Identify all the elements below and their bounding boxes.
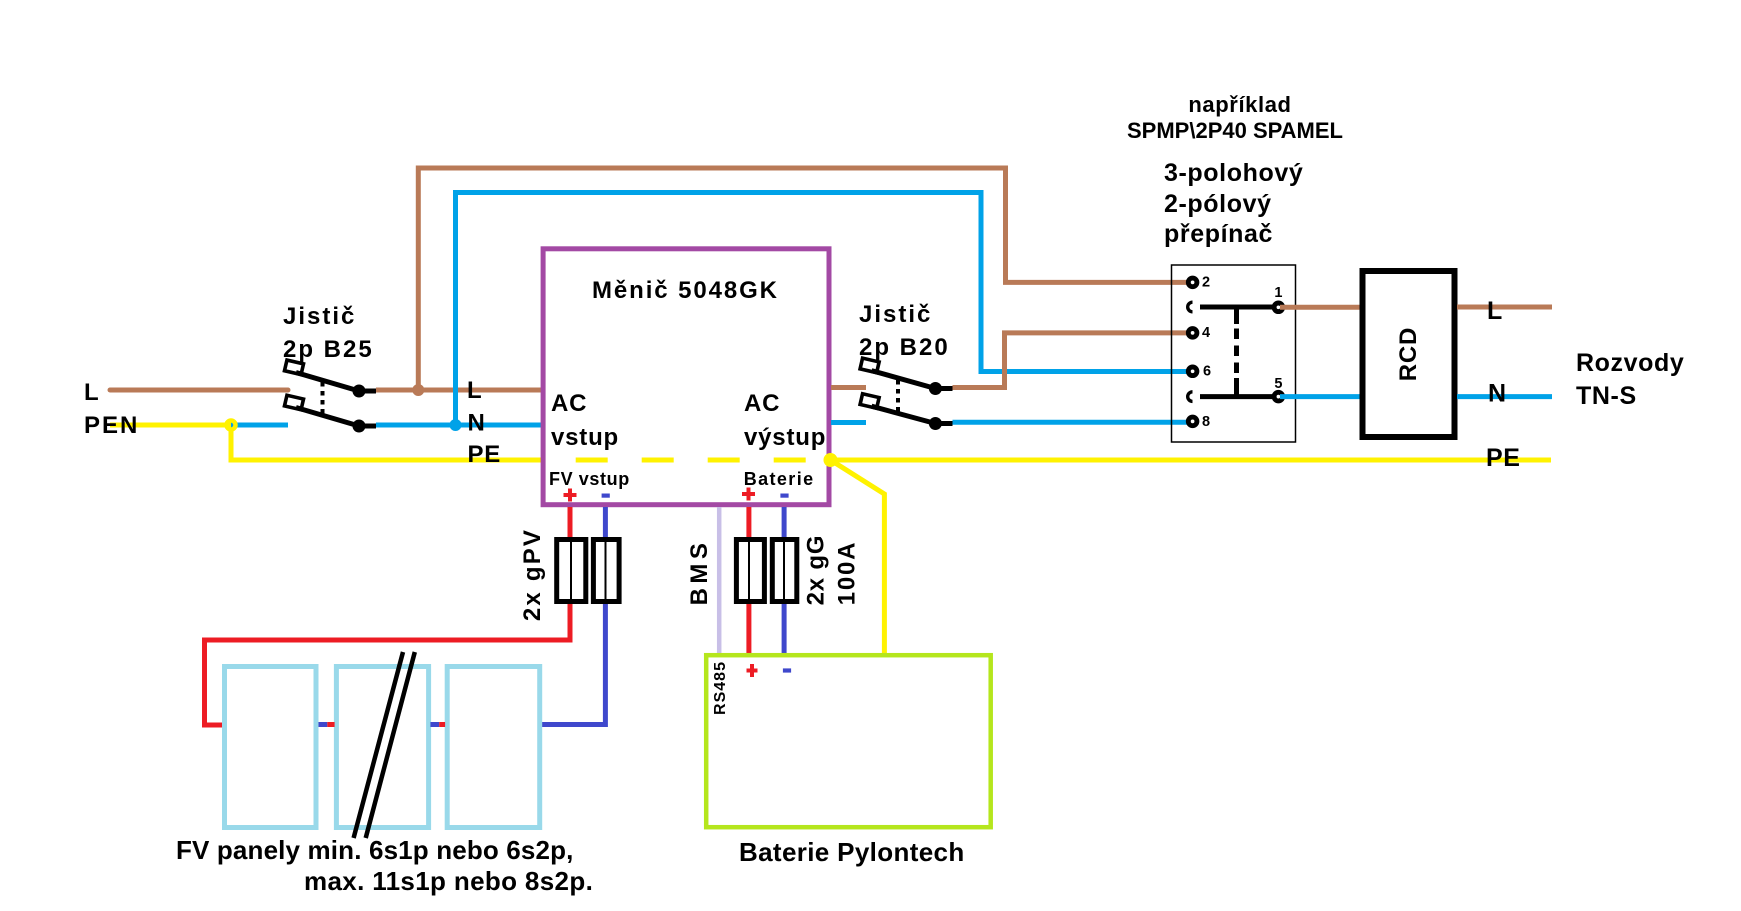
svg-text:RCD: RCD (1395, 327, 1422, 381)
svg-text:2x gPV: 2x gPV (519, 528, 546, 621)
wire FV+ red from inverter to fuse (568, 507, 573, 537)
svg-text:5: 5 (1274, 376, 1282, 392)
breaker Q2 2p B20 lower pole (860, 394, 952, 430)
wire PE branch to battery (yellow) (831, 460, 885, 655)
wire AC out L (brown) inverter to breaker (831, 385, 866, 390)
svg-text:vstup: vstup (551, 424, 619, 451)
fuse F4 (gG -) (772, 540, 797, 602)
svg-text:L: L (467, 377, 482, 404)
node N junction (450, 419, 462, 431)
wire FV- blue fuse to panel 3 (540, 604, 605, 725)
svg-text:L: L (1487, 297, 1503, 325)
wire blue bypass loop (N to switch terminal 6) (456, 193, 1192, 426)
FV panel 2 (336, 667, 428, 828)
switch S1 terminal 4 (1188, 329, 1197, 338)
wire PE from PEN junction down then right (yellow) (231, 425, 543, 460)
fuse F3 (gG +) (736, 540, 764, 602)
svg-text:FV vstup: FV vstup (549, 469, 630, 489)
wire BMS RS485 (lavender) (717, 507, 722, 655)
switch S1 pole 1 bar to terminal 1 (1200, 305, 1276, 310)
node PE junction at inverter corner (824, 453, 838, 467)
switch S1 terminal 1 (1274, 303, 1283, 312)
breaker Q1 mechanical link (dashed) (321, 382, 325, 414)
svg-text:N: N (1488, 380, 1507, 408)
switch S1 mechanical link (dashed) (1234, 307, 1239, 324)
svg-text:TN-S: TN-S (1576, 382, 1637, 410)
svg-text:RS485: RS485 (712, 661, 729, 715)
battery box Baterie Pylontech (706, 655, 991, 827)
svg-text:max. 11s1p nebo 8s2p.: max. 11s1p nebo 8s2p. (304, 866, 593, 896)
battery plus symbol (at inverter) (742, 488, 755, 501)
svg-text:100A: 100A (834, 541, 861, 606)
wire blue breaker B20 to switch terminal 8 (953, 420, 1192, 425)
svg-text:SPMP\2P40 SPAMEL: SPMP\2P40 SPAMEL (1127, 118, 1343, 143)
svg-text:přepínač: přepínač (1164, 220, 1273, 248)
switch S1 terminal 5 (1274, 392, 1283, 401)
wire battery + red inverter to fuse (746, 507, 751, 537)
svg-text:FV panely min. 6s1p nebo 6s2p,: FV panely min. 6s1p nebo 6s2p, (176, 835, 574, 865)
battery terminal plus symbol (747, 664, 758, 677)
svg-text:6: 6 (1203, 364, 1211, 380)
wire battery - blue fuse to battery (782, 604, 787, 657)
wire blue switch to RCD (1280, 394, 1360, 399)
wire blue RCD to outlet N (1457, 394, 1552, 399)
battery terminal minus symbol (783, 668, 791, 672)
wire L to inverter (brown) (376, 388, 543, 393)
wire N to inverter (blue) (376, 423, 543, 428)
svg-text:3-polohový: 3-polohový (1164, 159, 1303, 187)
switch S1 pole 2 bar to terminal 5 (1200, 394, 1276, 399)
svg-text:AC: AC (551, 390, 587, 417)
FV panel 1 (225, 667, 317, 828)
wire brown RCD to outlet L (1457, 305, 1552, 310)
fuse F1 (gPV +) (557, 540, 586, 602)
fuse F2 (gPV -) (593, 540, 619, 602)
switch S1 terminal 6 (1188, 367, 1197, 376)
svg-text:Měnič 5048GK: Měnič 5048GK (592, 277, 779, 304)
break symbol (more panels) (354, 652, 403, 838)
wire PEN incoming (yellow) (110, 423, 231, 428)
inverter U1 Měnič 5048GK box (543, 249, 829, 505)
breaker Q1 2p B25 lower pole (284, 395, 376, 432)
breaker Q2 mechanical link (dashed) (896, 380, 900, 412)
svg-text:PE: PE (1486, 444, 1521, 472)
wire panel2- to panel3+ (blue/red connector) (430, 722, 439, 727)
wire AC out N (blue) inverter to breaker (831, 420, 866, 425)
svg-text:L: L (84, 379, 99, 406)
svg-text:2p B20: 2p B20 (859, 334, 950, 361)
svg-text:Jistič: Jistič (283, 303, 356, 330)
switch S1 terminal 2 (1188, 278, 1197, 287)
wire brown breaker B20 to switch terminal 4 (953, 333, 1192, 388)
wire battery + red fuse to battery (746, 604, 751, 657)
node L junction (412, 384, 424, 396)
svg-text:4: 4 (1202, 325, 1210, 341)
svg-text:2x gG: 2x gG (803, 535, 830, 606)
switch S1 terminal 8 (1188, 417, 1197, 426)
wire panel1- to panel2+ (blue/red connector) (319, 722, 328, 727)
wire brown switch to RCD (1280, 305, 1360, 310)
wire PE solid to the right (yellow) (830, 458, 1551, 463)
breaker Q1 2p B25 upper pole (284, 360, 376, 397)
breaker Q2 2p B20 upper pole (860, 358, 952, 395)
FV panel 3 (447, 667, 540, 828)
wire battery - blue inverter to fuse (782, 507, 787, 537)
battery minus symbol (at inverter) (780, 494, 788, 498)
svg-text:PE: PE (468, 441, 502, 468)
svg-text:Baterie Pylontech: Baterie Pylontech (739, 837, 965, 867)
svg-text:N: N (468, 410, 486, 437)
FV minus symbol (602, 494, 610, 498)
svg-text:výstup: výstup (744, 424, 826, 451)
svg-text:AC: AC (744, 390, 780, 417)
wire L incoming (brown) (110, 388, 288, 393)
svg-text:2-pólový: 2-pólový (1164, 190, 1272, 218)
switch S1 pole 1 contact (1188, 302, 1193, 312)
node PEN junction (227, 421, 236, 430)
wire FV+ red fuse to panel 1 (205, 604, 571, 725)
svg-text:BMS: BMS (686, 539, 713, 606)
svg-text:Rozvody: Rozvody (1576, 349, 1684, 377)
svg-text:Jistič: Jistič (859, 301, 932, 328)
svg-text:například: například (1188, 92, 1291, 117)
RCD box (1363, 271, 1455, 437)
wire PE dashed through inverter (yellow) (576, 458, 830, 463)
svg-text:1: 1 (1274, 285, 1282, 301)
switch S1 box (1172, 265, 1296, 442)
wire FV- blue from inverter to fuse (603, 507, 608, 537)
wire N from PEN junction (blue) (231, 423, 288, 428)
FV plus symbol (564, 489, 577, 502)
wire brown bypass loop (L to switch terminal 2) (418, 168, 1191, 390)
svg-text:Baterie: Baterie (744, 469, 815, 489)
svg-text:2: 2 (1202, 274, 1210, 290)
svg-text:PEN: PEN (84, 412, 139, 439)
switch S1 pole 2 contact (1188, 392, 1193, 402)
svg-text:2p B25: 2p B25 (283, 336, 374, 363)
svg-text:8: 8 (1202, 414, 1210, 430)
